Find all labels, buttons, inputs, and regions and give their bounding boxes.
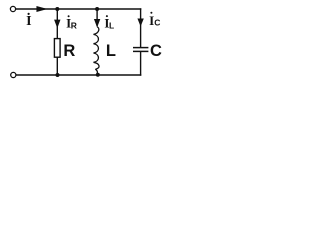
node junction bottom L — [96, 73, 100, 77]
arrow IR down — [55, 20, 60, 27]
wire C branch right vertical bottom — [140, 51, 142, 75]
resistor R body — [54, 39, 60, 58]
svg-text:R: R — [63, 42, 75, 60]
label IL (current) — [104, 15, 114, 31]
node junction bottom R — [56, 73, 60, 77]
wire L branch top — [96, 9, 98, 26]
arrow IC down — [138, 19, 143, 26]
arrow IL down — [94, 19, 99, 26]
svg-text:I: I — [26, 14, 31, 29]
wire C branch right vertical top — [140, 8, 142, 47]
label IC (current) — [149, 12, 160, 28]
svg-text:C: C — [154, 18, 160, 28]
label IR (current) — [66, 15, 77, 30]
capacitor C bottom plate — [133, 50, 148, 52]
svg-text:L: L — [106, 42, 116, 60]
label I (current) — [26, 13, 31, 29]
node junction top R — [55, 7, 59, 11]
capacitor C top plate — [133, 47, 148, 49]
inductor L coil — [94, 27, 100, 75]
terminal top-left — [10, 6, 15, 11]
wire R branch bottom — [56, 57, 58, 75]
node junction top L — [95, 7, 99, 11]
wire top horizontal — [16, 8, 142, 10]
wire bottom horizontal — [16, 74, 141, 76]
arrow I on top wire — [37, 7, 46, 12]
svg-text:R: R — [71, 21, 77, 31]
svg-text:L: L — [109, 21, 114, 31]
svg-text:C: C — [150, 42, 162, 60]
terminal bottom-left — [11, 72, 16, 77]
wire R branch top — [56, 9, 58, 39]
